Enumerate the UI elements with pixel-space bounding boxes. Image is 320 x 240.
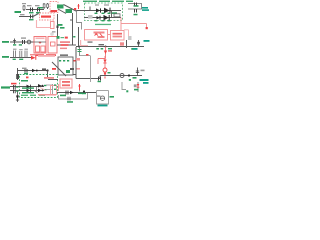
T1 winding box a <box>36 46 40 52</box>
capacitor C8 <box>25 69 27 73</box>
switch blade diagonal <box>52 62 66 76</box>
output filter block top right <box>121 3 149 31</box>
low voltage dc section <box>57 82 128 106</box>
D20 label <box>108 50 112 52</box>
resistor R1 <box>23 5 25 11</box>
filter box outline <box>128 4 142 10</box>
green marks <box>44 85 46 86</box>
red pin label <box>65 37 68 39</box>
label above C3 <box>20 14 25 15</box>
wire stub to rail <box>73 74 76 76</box>
U1 label <box>51 10 58 12</box>
wire joining rows <box>111 11 113 18</box>
rail wire <box>18 70 48 72</box>
right output rail <box>76 47 149 82</box>
R5 green mark <box>13 59 16 60</box>
capacitor C15 <box>136 68 139 76</box>
wire second line <box>19 16 33 18</box>
capacitor C14 on rail <box>99 77 101 81</box>
red tick in filter <box>26 77 29 79</box>
wire stub right <box>126 40 128 48</box>
T1b inner mark <box>51 42 56 46</box>
U3 LED arrows <box>95 33 99 36</box>
C8 green mark <box>24 73 28 74</box>
wire vertical feedback <box>72 13 74 45</box>
zener D21 <box>103 60 106 64</box>
green mark <box>108 72 111 74</box>
green tick on vertical <box>73 36 75 38</box>
capacitor C5 <box>23 40 25 44</box>
wire diagonal A <box>64 5 78 12</box>
capacitor C3 <box>31 15 33 19</box>
buzzer symbol <box>100 96 104 100</box>
wire through transformer <box>34 41 46 43</box>
C13 green label <box>60 95 66 97</box>
electrolytic C6 green <box>79 47 81 57</box>
top-left AC line filter section <box>15 3 45 20</box>
transformer primary section <box>2 36 76 56</box>
X-cap C9b <box>14 89 16 93</box>
green marks under bus <box>96 48 99 50</box>
LED D10 red <box>78 4 80 9</box>
red mark top <box>86 54 89 56</box>
neutral wire <box>10 90 44 92</box>
regulator section lower middle <box>59 79 73 91</box>
wire row1 <box>76 10 121 12</box>
red label row bottom <box>38 94 56 96</box>
comp C12 <box>137 40 140 47</box>
red mark <box>52 68 56 70</box>
polarity marks row2 <box>95 20 111 21</box>
capacitor C1 <box>31 8 33 12</box>
label above C1 <box>27 5 32 6</box>
junction dot bus b <box>105 46 107 48</box>
wire to transformer <box>10 41 34 43</box>
red spec2 <box>77 68 81 70</box>
wire aux <box>10 57 31 59</box>
wire stub <box>78 27 80 47</box>
earth wire <box>17 91 19 102</box>
green dot above loop <box>78 93 83 95</box>
green label left <box>133 77 137 79</box>
startup / bias section <box>37 2 78 46</box>
green dot <box>131 48 133 50</box>
LED D8 red <box>79 84 81 90</box>
resistor R2 <box>43 3 45 9</box>
C11 label <box>134 14 138 16</box>
pink filter box <box>51 86 57 95</box>
transformer T1 box <box>34 37 46 54</box>
zener chain red wire <box>98 47 106 65</box>
connector body <box>16 74 19 79</box>
T1 core mark <box>39 41 42 44</box>
rail wire low <box>76 78 100 80</box>
T1 labels below <box>35 54 56 56</box>
capacitor C10 <box>135 3 137 7</box>
vertical feed <box>75 47 77 79</box>
red spec <box>76 58 80 61</box>
T1 top hatch <box>36 38 45 40</box>
C10 label <box>134 5 139 7</box>
vertical bus <box>52 84 54 94</box>
capacitor C13 <box>66 91 68 95</box>
pin stub <box>89 7 91 11</box>
snubber red label above <box>60 41 70 43</box>
wire pink to transformer <box>37 20 51 28</box>
junction dot <box>46 69 48 71</box>
C2 value label <box>36 12 41 13</box>
green label row bottom <box>21 95 45 96</box>
green label <box>134 89 139 91</box>
AC input label <box>1 86 10 88</box>
wire from rectifier down <box>77 11 82 30</box>
diode D14 <box>104 15 109 21</box>
bridge diode D3 <box>27 85 31 89</box>
K1 red pin mark <box>74 60 76 62</box>
green dash <box>61 37 65 38</box>
net label box FB <box>66 9 73 13</box>
earth diode <box>16 96 19 100</box>
EMI filter dashed box <box>20 75 58 98</box>
wire vertical sense <box>57 14 59 36</box>
red pin labels row <box>38 55 55 57</box>
wire diagonal B <box>58 9 66 14</box>
dashed border <box>85 3 123 21</box>
comp R5 <box>14 51 16 58</box>
zener D20 <box>104 51 107 55</box>
LED stem wire <box>79 90 81 92</box>
pin tick <box>70 19 73 21</box>
K1 box <box>58 57 73 75</box>
capacitor C4 vertical <box>13 39 16 45</box>
bridge diode D5 <box>38 84 42 88</box>
U2 inner label <box>41 16 51 18</box>
D3 label green <box>22 87 34 88</box>
C9b green tick <box>16 90 18 91</box>
connector pin circle <box>27 40 31 44</box>
triac symbol green <box>66 70 70 73</box>
U5 labels <box>62 81 70 83</box>
green mark aux <box>19 59 23 60</box>
wire diagonal to startup <box>33 14 39 17</box>
auxiliary row y57 <box>2 49 55 60</box>
wire to relay <box>48 79 58 81</box>
C9a green tick <box>16 86 18 87</box>
output net label <box>142 7 149 11</box>
optocoupler U3 box <box>85 30 108 41</box>
capacitor C7 <box>25 51 27 58</box>
green text under row2 <box>95 24 111 25</box>
gray stub <box>90 56 92 82</box>
capacitor C2 <box>38 8 40 12</box>
diode D11 <box>96 8 100 12</box>
shunt reference U4 box <box>111 31 125 41</box>
buzzer labels <box>110 96 115 98</box>
red comp on bus right <box>120 42 124 45</box>
inductor L2 <box>114 14 120 17</box>
red chain lower part <box>104 56 106 68</box>
green dot <box>126 90 128 92</box>
bus wire <box>76 46 144 48</box>
relay switch K1 <box>52 54 76 76</box>
wires to filter <box>46 85 53 90</box>
label above C2 <box>35 5 40 6</box>
secondary rectifier green dashed box <box>76 1 133 25</box>
C15 label <box>141 70 145 72</box>
line wire <box>10 86 44 88</box>
C14 green mark <box>98 81 102 82</box>
bias comp gray <box>128 36 132 40</box>
comp R6 <box>42 68 46 70</box>
label R1 <box>22 3 26 4</box>
IC U1 box <box>50 2 58 13</box>
label on bus <box>99 44 105 45</box>
C3 value label <box>29 19 34 20</box>
bridge diode D4 <box>27 89 31 93</box>
junction <box>128 74 130 76</box>
red label below wire <box>60 48 67 50</box>
bus label <box>88 41 93 43</box>
gray label <box>52 31 56 33</box>
net label green right <box>144 40 150 42</box>
bridge diode D6 <box>38 89 42 93</box>
hook wire <box>122 82 126 90</box>
junction dot bus a <box>78 46 80 48</box>
varistor stem <box>36 87 38 92</box>
main secondary bus <box>76 11 150 79</box>
pad circle <box>50 32 54 36</box>
green net label small <box>58 24 63 26</box>
resistor R4 red <box>51 22 55 29</box>
red pin mark <box>74 8 76 10</box>
optocoupler feedback section <box>85 30 132 41</box>
teal label <box>143 82 149 84</box>
red label row <box>44 77 54 79</box>
junction blob <box>57 26 59 29</box>
C4 green mark <box>13 44 16 45</box>
D1 label <box>30 54 36 55</box>
D4 label green <box>22 92 34 93</box>
K1 label above <box>60 54 68 56</box>
connector stem <box>17 68 19 80</box>
pink wire from U5 <box>58 84 60 91</box>
net label aux <box>2 56 9 58</box>
label above wire <box>21 37 26 38</box>
net label green in box <box>112 12 117 14</box>
R2 value label <box>38 7 43 9</box>
net label box VCC <box>57 5 64 9</box>
green dot <box>129 79 131 81</box>
step <box>99 76 101 79</box>
wire between opto and ref <box>108 34 111 36</box>
D9 label <box>134 84 137 87</box>
U4 label <box>113 33 123 35</box>
bottom AC input <box>1 83 57 102</box>
box title text <box>83 1 133 2</box>
junction dot <box>83 90 85 92</box>
diode D7 <box>70 91 74 95</box>
polarity marks row1 <box>95 13 111 14</box>
primary rectified rail <box>16 68 58 98</box>
labels row1 <box>95 4 99 5</box>
net label with flag <box>2 41 9 43</box>
teal output label <box>140 79 149 81</box>
wire top line <box>26 9 44 11</box>
diode D13 <box>97 16 100 20</box>
fuse label red <box>11 83 17 85</box>
comp R6a <box>20 51 22 58</box>
LED D9 red <box>137 84 140 87</box>
green label above fuse <box>21 80 28 82</box>
LED arrow <box>104 73 107 77</box>
buzzer box <box>97 91 109 105</box>
green sense comp <box>57 36 60 39</box>
net label green below <box>133 48 138 50</box>
snubber comp <box>88 15 93 19</box>
wire secondary <box>57 44 76 46</box>
green pin marks <box>54 84 56 85</box>
green label right of wire <box>60 27 65 29</box>
lamp circle <box>120 74 124 78</box>
comp on loop <box>68 97 70 101</box>
R6a label <box>19 49 23 50</box>
LED circle <box>103 68 107 72</box>
dc wire <box>57 92 96 94</box>
diode D2 <box>32 69 36 73</box>
green mark <box>82 93 86 94</box>
loop wire lower <box>59 93 88 99</box>
pink wire U4 to bias <box>124 30 129 36</box>
green marks right <box>108 48 112 49</box>
K1 green pin marks <box>59 60 69 62</box>
transformer T1 second box <box>48 37 57 54</box>
regulator U5 box <box>60 79 72 88</box>
loop label <box>67 101 73 103</box>
C7 label <box>24 49 28 50</box>
pink stub <box>81 40 88 46</box>
wire stem <box>137 82 139 92</box>
wire down <box>47 71 49 79</box>
U4 label line2 <box>113 36 123 38</box>
controller red box U2 <box>40 13 55 20</box>
label above <box>22 68 27 69</box>
C1 value label <box>29 12 34 13</box>
C5 green mark <box>19 44 22 45</box>
X-cap C9a <box>14 85 16 89</box>
capacitor C11 <box>135 9 137 13</box>
T1 winding box b <box>41 46 45 52</box>
red feedback wire <box>121 18 147 31</box>
resistor R3 <box>47 3 49 9</box>
pink diagonal wire <box>40 88 46 91</box>
wire row2 <box>84 17 121 19</box>
diode D12 <box>104 8 110 14</box>
rail wire high <box>100 75 142 77</box>
snubber red comps on wire <box>61 44 69 46</box>
diode D1 red <box>31 56 36 60</box>
bottom right indicator <box>134 82 149 92</box>
net label L-IN <box>15 11 22 13</box>
R5 label <box>13 49 17 50</box>
comp in box <box>70 68 74 70</box>
red junction dot <box>146 27 148 29</box>
